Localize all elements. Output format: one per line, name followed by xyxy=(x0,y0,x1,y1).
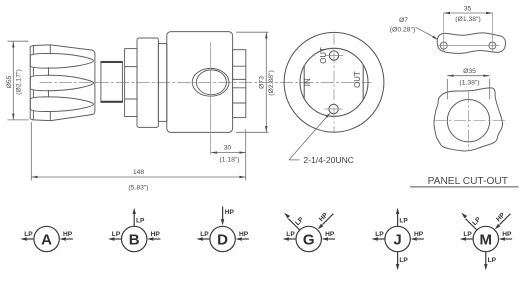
svg-text:LP: LP xyxy=(375,231,384,238)
link vmark left xyxy=(443,13,445,52)
svg-text:Ø73: Ø73 xyxy=(258,76,265,89)
diagram G upper-left LP arrow xyxy=(284,213,300,230)
svg-text:M: M xyxy=(480,232,493,249)
arrow 148 right xyxy=(239,176,245,178)
body xyxy=(167,32,233,133)
svg-text:LP: LP xyxy=(200,231,209,238)
front view inner circle xyxy=(300,48,368,116)
svg-text:OUT: OUT xyxy=(319,47,328,64)
front hole top xyxy=(329,51,338,60)
link plate outline xyxy=(437,33,505,54)
knob inner left edge xyxy=(32,46,34,120)
arrow 30 left xyxy=(211,151,217,153)
cutout hmark xyxy=(435,120,507,122)
knob band tick bottom xyxy=(49,112,51,121)
svg-text:HP: HP xyxy=(63,231,73,238)
svg-text:HP: HP xyxy=(502,231,512,238)
svg-text:35: 35 xyxy=(464,6,472,13)
diagram G upper-right HP arrow xyxy=(318,214,334,230)
svg-text:(Ø1.38"): (Ø1.38") xyxy=(455,16,480,23)
diagram M upper-right HP arrow xyxy=(495,214,511,230)
panel cutout circle xyxy=(447,100,489,142)
diagram B left LP arrow xyxy=(108,237,122,240)
wire main horizontal centerline xyxy=(34,82,371,84)
front hole top tick xyxy=(325,55,343,57)
diagram D right HP arrow xyxy=(236,237,249,240)
leader UNC xyxy=(289,116,327,160)
diagram M right HP arrow xyxy=(499,237,512,240)
arrow 30 right xyxy=(239,151,245,153)
svg-text:(Ø2.88"): (Ø2.88") xyxy=(268,70,275,95)
cutout vmark xyxy=(468,91,470,151)
knob flute rib 2 xyxy=(30,75,93,90)
port diagram M circle xyxy=(473,226,498,251)
svg-text:LP: LP xyxy=(463,231,472,238)
arrow 35 left xyxy=(444,12,450,14)
dim 148/30 ext right xyxy=(245,130,247,181)
svg-text:HP: HP xyxy=(151,231,161,238)
dim O73 ext bottom xyxy=(236,131,269,133)
svg-text:HP: HP xyxy=(225,209,235,216)
diagram D left LP arrow xyxy=(196,237,210,240)
port diagram A circle xyxy=(34,226,59,251)
svg-text:(1.38"): (1.38") xyxy=(459,80,479,87)
dim O35 line xyxy=(447,75,489,77)
knob outline xyxy=(30,45,95,121)
svg-text:(1.18"): (1.18") xyxy=(219,156,239,163)
svg-text:IN: IN xyxy=(303,78,312,86)
port hole ellipse xyxy=(196,70,226,95)
flange xyxy=(137,38,158,127)
dim O55 line xyxy=(12,41,14,120)
dim O35 ext left xyxy=(446,79,448,100)
dim 148 line xyxy=(31,176,245,178)
dim 35 line xyxy=(444,12,493,14)
svg-text:PANEL CUT-OUT: PANEL CUT-OUT xyxy=(428,176,508,187)
port diagram D circle xyxy=(210,226,235,251)
svg-text:(Ø0.28"): (Ø0.28") xyxy=(390,26,415,33)
front hole bottom tick xyxy=(325,108,343,110)
svg-text:LP: LP xyxy=(399,218,408,225)
leader O7 arrowhead xyxy=(432,36,438,40)
diagram A left LP arrow xyxy=(20,237,34,240)
arrow O73 top xyxy=(265,32,267,38)
dim O73 ext top xyxy=(236,31,269,33)
knob band tick top xyxy=(49,45,51,54)
link hole right xyxy=(489,42,496,49)
port diagram G circle xyxy=(296,226,321,251)
svg-text:HP: HP xyxy=(325,231,335,238)
diagram J left LP arrow xyxy=(371,237,385,240)
stack line 4 xyxy=(233,102,246,104)
panel cutout underline xyxy=(410,186,519,188)
link vmark right xyxy=(491,13,493,52)
svg-text:D: D xyxy=(217,232,228,249)
svg-text:30: 30 xyxy=(224,144,232,151)
diagram A right HP arrow xyxy=(60,237,73,240)
arrow 35 right xyxy=(486,12,492,14)
svg-text:(5.83"): (5.83") xyxy=(128,185,148,192)
port diagram J circle xyxy=(385,226,410,251)
diagram G right HP arrow xyxy=(322,237,335,240)
dim O55 tick top xyxy=(8,40,29,42)
svg-text:Ø55: Ø55 xyxy=(6,75,13,88)
dim 30 line xyxy=(211,152,246,154)
panel cutout blob xyxy=(434,88,503,151)
port diagram B circle xyxy=(122,226,147,251)
knob flute rib 3 xyxy=(30,97,93,112)
diagram G left LP arrow xyxy=(283,237,297,240)
diagram J right HP arrow xyxy=(411,237,424,240)
collar xyxy=(158,44,166,122)
diagram M left LP arrow xyxy=(460,237,474,240)
port boss ellipse xyxy=(192,68,229,96)
front view outer circle xyxy=(284,32,384,132)
svg-text:148: 148 xyxy=(133,169,145,176)
dim O55 tick bottom xyxy=(8,119,29,121)
diagram M bottom LP arrow xyxy=(484,252,487,271)
svg-text:G: G xyxy=(303,232,315,249)
svg-text:2-1/4-20UNC: 2-1/4-20UNC xyxy=(303,155,354,165)
arrow O35 left xyxy=(447,75,453,77)
arrow O73 bottom xyxy=(265,126,267,132)
svg-text:LP: LP xyxy=(136,218,145,225)
svg-text:LP: LP xyxy=(286,231,295,238)
svg-text:B: B xyxy=(129,232,140,249)
front chord right xyxy=(362,65,364,100)
washer groove bottom xyxy=(125,98,137,100)
leader UNC arrowhead xyxy=(326,113,331,118)
arrow 148 left xyxy=(31,176,37,178)
panel washer xyxy=(125,49,137,117)
stem thread bottom xyxy=(101,101,122,103)
svg-text:Ø35: Ø35 xyxy=(463,68,476,75)
knob band tick mid2 xyxy=(48,90,50,97)
svg-text:A: A xyxy=(41,232,52,249)
svg-text:LP: LP xyxy=(112,231,121,238)
arrow O35 right xyxy=(483,75,489,77)
knob band tick mid1 xyxy=(48,68,50,76)
leader O7 xyxy=(416,27,435,37)
knob flute rib 1 xyxy=(30,53,93,68)
diagram J top LP arrow xyxy=(396,208,399,227)
knob center dash xyxy=(40,82,92,84)
washer groove top xyxy=(125,66,137,68)
dim 148 ext left xyxy=(30,122,32,181)
rear stack xyxy=(233,50,246,118)
link holes centerline xyxy=(438,45,500,47)
front hole bottom xyxy=(329,104,338,113)
dim O35 ext right xyxy=(489,79,491,100)
svg-text:HP: HP xyxy=(414,231,424,238)
svg-text:Ø7: Ø7 xyxy=(399,17,408,24)
link hole left xyxy=(440,42,447,49)
diagram M upper-left LP arrow xyxy=(461,213,477,230)
port vertical centerline xyxy=(210,42,212,154)
svg-text:J: J xyxy=(393,232,401,249)
stem thread top xyxy=(101,61,122,63)
front chord left xyxy=(303,66,305,99)
svg-text:LP: LP xyxy=(24,231,33,238)
threaded stem xyxy=(101,61,123,102)
diagram B top LP arrow xyxy=(133,208,136,227)
svg-text:OUT: OUT xyxy=(353,71,362,88)
diagram J bottom LP arrow xyxy=(396,252,399,271)
front vertical centerline xyxy=(333,34,335,132)
svg-text:HP: HP xyxy=(239,231,249,238)
dim O73 line xyxy=(265,32,267,132)
arrow O55 top xyxy=(12,41,14,47)
diagram D top HP arrow xyxy=(221,207,224,226)
svg-text:(Ø2.17"): (Ø2.17") xyxy=(15,69,22,94)
stack line 2 xyxy=(233,78,246,80)
svg-text:LP: LP xyxy=(488,257,497,264)
svg-text:LP: LP xyxy=(399,257,408,264)
diagram B right HP arrow xyxy=(147,237,160,240)
stack line 1 xyxy=(233,65,246,67)
arrow O55 bottom xyxy=(12,114,14,120)
stack line 3 xyxy=(233,87,246,89)
